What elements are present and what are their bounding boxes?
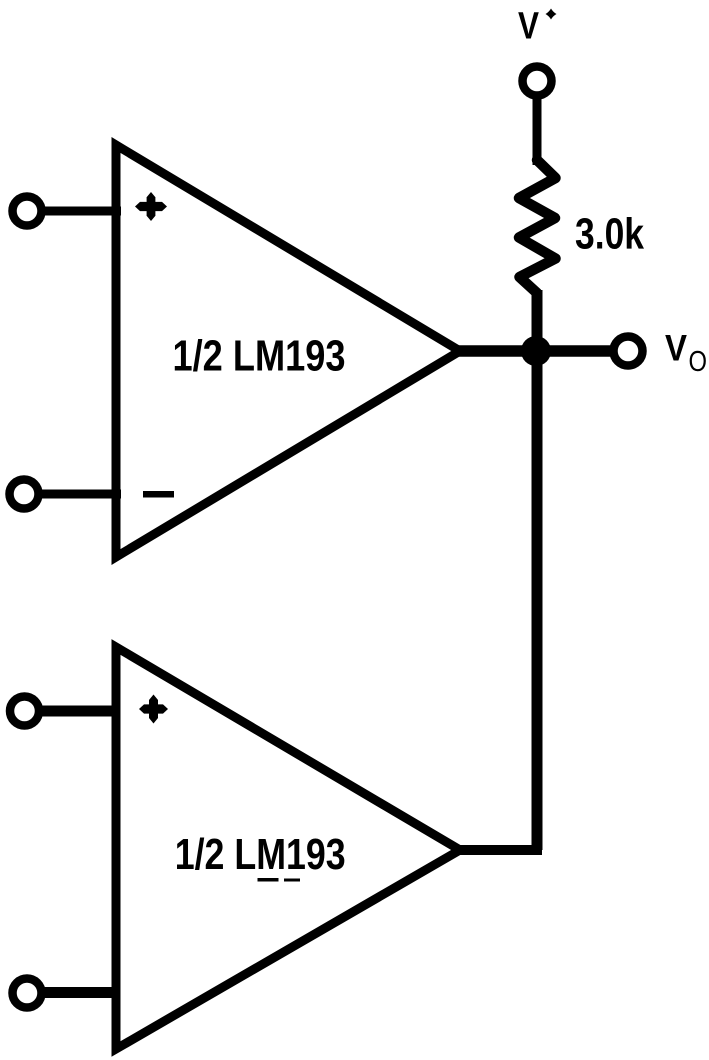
wire: U1 - input xyxy=(32,490,121,499)
svg-text:1/2 LM193: 1/2 LM193 xyxy=(173,333,346,381)
wire: U2 + input xyxy=(36,706,120,717)
svg-text:V: V xyxy=(518,6,540,48)
resistor R1 3.0k (pull-up) xyxy=(519,160,556,293)
svg-text:1/2 LM193: 1/2 LM193 xyxy=(175,831,346,879)
terminal: U2 - input xyxy=(13,979,42,1008)
terminal: U1 + input xyxy=(13,197,42,226)
wire: resistor to output node xyxy=(532,290,543,355)
U1 inverting (-) input marker xyxy=(143,491,174,498)
wire: output node down to U2 output xyxy=(532,351,543,850)
terminal: VO output xyxy=(614,337,643,366)
terminal: V+ supply xyxy=(523,67,552,96)
op-amp U2 (bottom 1/2 LM193 comparator triangle) xyxy=(116,647,460,1049)
op-amp U1 (top 1/2 LM193 comparator triangle) xyxy=(116,145,460,557)
wire: V+ terminal to resistor xyxy=(533,95,542,165)
svg-text:3.0k: 3.0k xyxy=(575,210,645,258)
node: wired-OR output junction xyxy=(521,336,551,366)
wire: U2 output to node column xyxy=(455,845,542,855)
svg-text:V: V xyxy=(665,328,687,369)
underline dashes below U2 label xyxy=(258,878,279,882)
wire: U1 output to VO terminal xyxy=(455,345,612,357)
wire: U2 - input xyxy=(38,987,120,998)
svg-text:O: O xyxy=(689,346,708,378)
U2 noninverting (+) input marker xyxy=(139,704,168,713)
U1 noninverting (+) input marker xyxy=(135,202,167,211)
terminal: U2 + input xyxy=(10,697,39,726)
terminal: U1 - input xyxy=(10,480,39,509)
wire: U1 + input xyxy=(35,207,121,216)
